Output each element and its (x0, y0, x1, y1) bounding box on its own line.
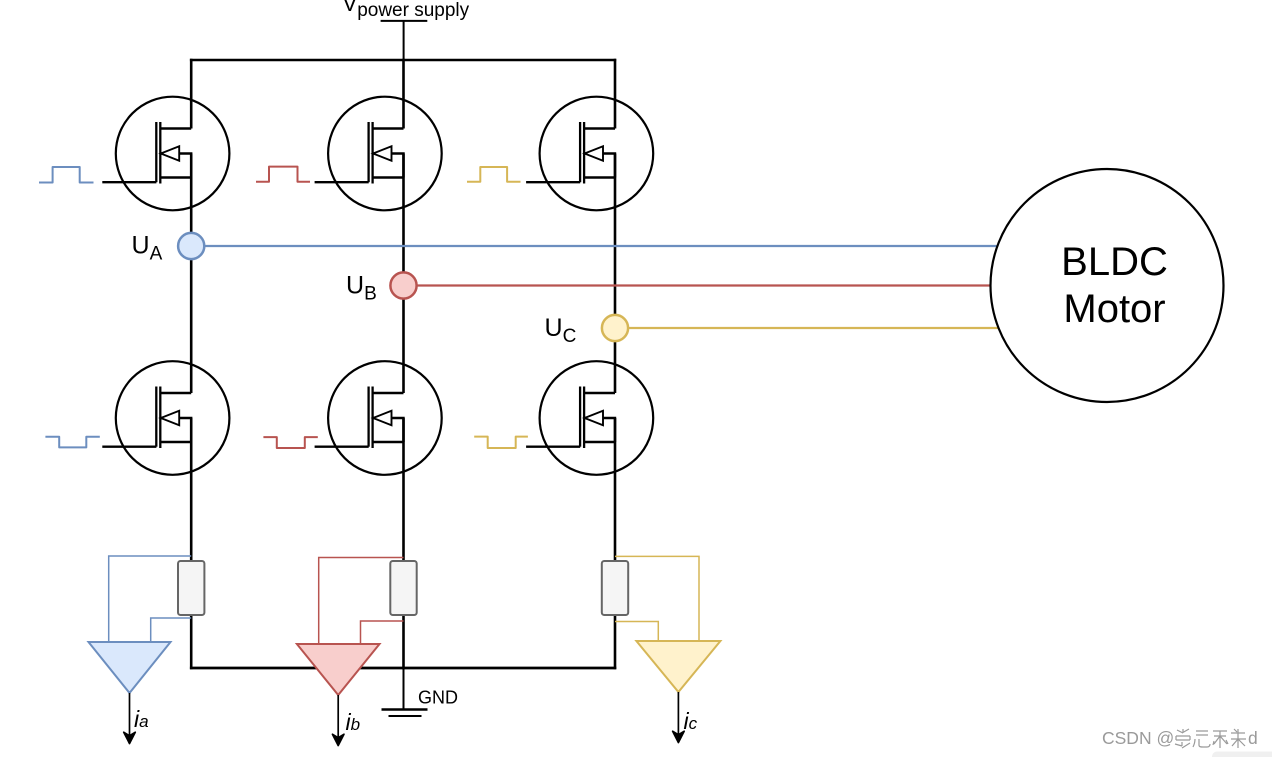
gate pulse signal Q3 (red) (256, 167, 310, 182)
svg-text:UB: UB (346, 272, 377, 305)
gate pulse signal Q1 (blue) (39, 167, 94, 183)
wire: phase C (yellow) (615, 327, 999, 329)
svg-text:ic: ic (684, 708, 698, 734)
wire: column A segments (190, 59, 193, 670)
wire: column B segments (402, 59, 405, 670)
svg-text:Motor: Motor (1063, 287, 1165, 331)
op-amp A2 (phase B current amp) (297, 644, 380, 695)
svg-text:ia: ia (134, 706, 149, 732)
transistor Q6 (low side phase C) (526, 361, 653, 475)
svg-text:UC: UC (545, 314, 577, 347)
op-amp A3 (phase C current amp) (636, 641, 720, 692)
svg-text:UA: UA (132, 232, 163, 265)
motor M1 (BLDC) (991, 169, 1224, 402)
ground (382, 710, 428, 717)
wire: supply stem (403, 21, 405, 60)
op-amp A1 (phase A current amp) (89, 642, 171, 693)
node UC (602, 315, 628, 341)
gate pulse signal Q6 (yellow inverted) (474, 437, 528, 448)
node UA (178, 233, 204, 259)
bottom right corner UI fragment (1212, 752, 1272, 757)
watermark CSDN (1102, 728, 1258, 748)
transistor Q3 (high side phase B) (315, 97, 442, 211)
transistor Q5 (high side phase C) (526, 97, 653, 211)
wire: phase B (red) (404, 284, 991, 286)
gate pulse signal Q2 (blue inverted) (45, 437, 99, 448)
svg-text:CSDN @: CSDN @ (1102, 728, 1174, 748)
resistor Ra (shunt phase A) (178, 561, 204, 615)
svg-text:Vpower supply: Vpower supply (343, 0, 470, 21)
transistor Q1 (high side phase A) (102, 97, 229, 211)
arrow: output ic (673, 692, 685, 743)
wire: column C segments (614, 59, 617, 670)
wire: bottom rail (190, 667, 616, 670)
node UB (390, 272, 416, 298)
gate pulse signal Q4 (red inverted) (263, 437, 317, 448)
wire: phase A (blue) (191, 245, 996, 247)
wire: sense leads phase B (red) (319, 558, 404, 645)
svg-text:GND: GND (418, 688, 458, 708)
wire: sense leads phase A (blue) (109, 556, 192, 643)
svg-text:ib: ib (346, 709, 361, 735)
wire: top rail (190, 59, 616, 62)
svg-text:d: d (1248, 728, 1258, 748)
resistor Rb (shunt phase B) (390, 561, 416, 615)
gate pulse signal Q5 (yellow) (467, 167, 521, 182)
transistor Q4 (low side phase B) (315, 361, 442, 475)
svg-text:BLDC: BLDC (1061, 240, 1168, 284)
power supply terminal bar (381, 20, 428, 22)
transistor Q2 (low side phase A) (102, 361, 229, 475)
wire: ground stem (403, 668, 405, 710)
arrow: output ib (332, 695, 344, 746)
resistor Rc (shunt phase C) (602, 561, 628, 615)
wire: sense leads phase C (yellow) (615, 556, 699, 641)
arrow: output ia (124, 693, 136, 744)
